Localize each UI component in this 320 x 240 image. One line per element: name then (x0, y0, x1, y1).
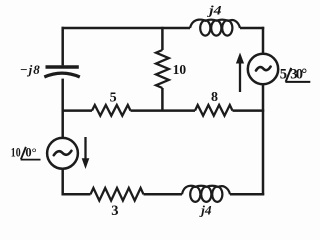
wire right vertical bottom (source to bottom rail) (262, 84, 265, 195)
wire left vertical top (node to capacitor) (61, 27, 64, 66)
capacitor C1 -j8 bottom plate (curved) (44, 73, 80, 77)
resistor R10 (10 ohm vertical) (156, 50, 169, 88)
svg-text:8: 8 (211, 90, 218, 105)
svg-text:5: 5 (110, 91, 117, 106)
svg-text:10: 10 (11, 145, 21, 159)
voltage source V1 tilde (54, 151, 72, 155)
wire top rail (62, 27, 265, 30)
voltage source V1 circle (47, 138, 78, 169)
resistor R5 (5 ohm) (92, 105, 131, 116)
wire bottom rail segments (62, 193, 265, 196)
wire left vertical middle (capacitor to source) (61, 79, 64, 138)
svg-text:j4: j4 (207, 3, 222, 18)
svg-text:3: 3 (111, 203, 118, 219)
arrowhead down (82, 158, 90, 169)
resistor R3 (3 ohm) (91, 188, 144, 201)
arrowhead up (236, 53, 244, 64)
underline of angle 30 deg (285, 81, 310, 83)
svg-text:−j8: −j8 (20, 62, 40, 77)
current source I1 tilde (256, 67, 271, 71)
wire middle vertical top stub (161, 27, 164, 50)
current arrow down (beside V1) (84, 137, 86, 160)
svg-text:0°: 0° (25, 145, 36, 159)
current arrow up (beside I1) (239, 62, 241, 93)
svg-text:10: 10 (173, 62, 187, 77)
resistor R8 (8 ohm) (195, 105, 233, 116)
current source I1 circle (248, 54, 278, 84)
wire middle vertical bottom stub (161, 88, 164, 112)
wire left vertical bottom (source to bottom rail) (61, 169, 64, 195)
underline of angle 0 deg (21, 159, 41, 161)
svg-text:j4: j4 (199, 203, 212, 218)
inductor L1 j4 top (190, 20, 240, 36)
wire middle rail segments (62, 109, 265, 112)
wire right vertical top (rail to source) (262, 27, 265, 54)
inductor L2 j4 bottom (182, 186, 230, 202)
svg-text:30°: 30° (290, 67, 307, 83)
capacitor C1 -j8 top plate (46, 65, 79, 68)
